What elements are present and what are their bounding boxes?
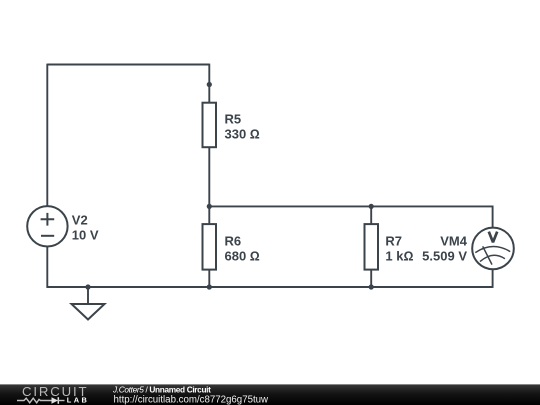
voltmeter VM4 [472,228,514,270]
svg-text:5.509 V: 5.509 V [422,248,467,263]
wire bottom rail [46,286,492,288]
resistor R6 [203,224,217,270]
wire R5 top lead [208,64,210,107]
label R6 value [225,234,260,264]
label VM4 value [422,234,468,264]
node R6 top [207,204,212,209]
wire ground stub [87,287,89,304]
footer url line [114,395,270,405]
svg-text:LAB: LAB [67,396,89,405]
svg-text:R7: R7 [385,234,402,249]
label V2 value [72,212,99,242]
svg-text:680 Ω: 680 Ω [225,248,260,263]
resistor R5 [203,103,217,148]
node R7 bottom [369,284,374,289]
logo LAB text [67,396,89,405]
svg-text:1 kΩ: 1 kΩ [385,248,413,263]
svg-text:http://circuitlab.com/c8772g6g: http://circuitlab.com/c8772g6g75tuw [114,395,270,405]
svg-text:R6: R6 [225,234,242,249]
svg-text:V2: V2 [72,212,88,227]
node A top junction [207,82,212,87]
wire top rail [47,64,209,66]
footer bar [0,384,540,405]
wire voltmeter bottom lead [492,269,494,288]
voltage source V2 [27,206,67,246]
svg-text:330 Ω: 330 Ω [225,127,260,142]
wire left vertical [46,64,48,207]
logo resistor zigzag and diode [17,397,65,404]
svg-text:VM4: VM4 [440,234,468,249]
svg-text:R5: R5 [225,112,242,127]
label R7 value [385,234,413,264]
ground [72,304,105,320]
label R5 value [225,112,260,142]
svg-text:10 V: 10 V [72,227,99,242]
logo CIRCUIT text [22,384,88,399]
svg-text:J.Cotter5 / Unnamed Circuit: J.Cotter5 / Unnamed Circuit [112,384,211,394]
wire voltmeter top lead [492,206,494,229]
footer title line [112,384,211,394]
wire R5 to R6 [208,147,210,225]
node R6 bottom [207,284,212,289]
node R7 top [369,204,374,209]
wire R7 top lead [370,206,372,224]
wire middle rail [209,205,492,207]
wire V2 bottom [46,246,48,287]
resistor R7 [365,224,379,270]
node ground junction [85,284,90,289]
wire R7 bottom lead [370,270,372,288]
wire R6 bottom lead [208,270,210,288]
